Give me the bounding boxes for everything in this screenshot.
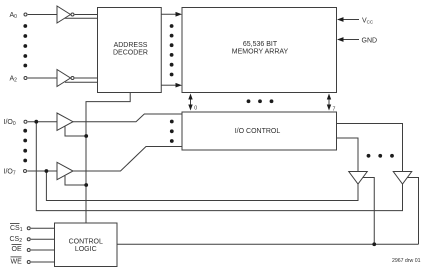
svg-text:ADDRESS: ADDRESS: [114, 42, 148, 49]
svg-text:65,536 BIT: 65,536 BIT: [243, 41, 278, 48]
ellipsis memory-io buses: [247, 99, 251, 103]
wire I/O control to left output buffer: [337, 138, 359, 172]
output buffer left: [349, 172, 368, 185]
output buffer right: [393, 172, 412, 185]
wire memory-io bus 7: [328, 98, 330, 107]
wire I/O7 input: [27, 170, 57, 172]
svg-text:LOGIC: LOGIC: [75, 246, 97, 253]
svg-text:I/O0: I/O0: [4, 119, 16, 127]
junction I/O0 pad: [34, 120, 38, 124]
wire CS2 input: [31, 238, 55, 240]
wire control logic to decoder: [86, 92, 130, 223]
wire A0 input: [28, 14, 57, 16]
svg-text:GND: GND: [362, 38, 378, 45]
terminal CS1: [27, 227, 30, 230]
svg-text:2967 drw 01: 2967 drw 01: [392, 258, 421, 264]
ellipsis I/O pads: [23, 129, 27, 133]
wire I/O0 buffer to I/O control: [73, 114, 182, 122]
wire I/O7 buffer enable: [65, 176, 86, 185]
svg-text:I/O CONTROL: I/O CONTROL: [235, 128, 281, 135]
wire I/O0 pad to output buffer: [36, 122, 402, 211]
memory array box U2: [182, 8, 337, 93]
arrowhead bus0 up: [188, 94, 192, 100]
junction enable I/O0: [84, 134, 88, 138]
wire right output buffer enable: [407, 178, 418, 245]
svg-text:DECODER: DECODER: [113, 50, 148, 57]
wire CS1 input: [31, 227, 55, 229]
svg-text:A2: A2: [10, 76, 18, 84]
buffer I/O7 input: [57, 162, 73, 179]
arrowhead bus7 up: [327, 94, 331, 100]
wire left output buffer enable: [363, 178, 375, 245]
wire control logic output enable: [117, 243, 419, 245]
ellipsis decoder-memory: [170, 24, 174, 28]
ellipsis output buffers: [367, 154, 371, 158]
wire I/O0 input: [28, 121, 57, 123]
buffer A0: [57, 6, 71, 23]
wire A2 buffer complement output: [65, 81, 98, 83]
terminal CS2: [27, 238, 30, 241]
overline CS1: [10, 223, 20, 225]
arrowhead bus0 down: [188, 105, 192, 111]
svg-text:I/O7: I/O7: [4, 169, 16, 177]
wire decoder to memory bottom: [161, 84, 176, 86]
svg-text:CS2: CS2: [10, 236, 23, 244]
ellipsis io-control inputs: [170, 120, 174, 124]
wire A0 buffer complement output: [65, 17, 98, 19]
wire I/O7 pad to output buffer: [46, 171, 358, 201]
terminal A0: [24, 13, 27, 16]
terminal A2: [24, 77, 27, 80]
wire I/O0 buffer enable: [65, 126, 86, 136]
terminal WE: [27, 261, 30, 264]
terminal OE: [27, 249, 30, 252]
wire GND: [342, 39, 359, 41]
svg-text:MEMORY ARRAY: MEMORY ARRAY: [232, 49, 289, 56]
wire A0 buffer true output: [75, 14, 98, 16]
svg-text:VCC: VCC: [362, 18, 374, 25]
junction enable I/O7: [84, 183, 88, 187]
arrowhead GND: [337, 37, 344, 42]
address decoder box U1: [98, 8, 162, 93]
arrowhead Vcc: [337, 17, 344, 22]
wire A2 buffer true output: [75, 77, 98, 79]
wire decoder to memory top: [161, 13, 176, 15]
wire I/O control to right output buffer: [337, 124, 403, 172]
I/O control box U3: [182, 112, 337, 150]
arrowhead decoder to memory bottom: [176, 83, 183, 88]
overline WE: [11, 256, 22, 258]
arrowhead decoder to memory top: [176, 12, 183, 17]
terminal I/O0: [24, 120, 27, 123]
overline OE: [12, 243, 22, 245]
buffer I/O0 input: [57, 113, 73, 130]
svg-text:WE: WE: [11, 258, 23, 265]
buffer A2: [57, 70, 71, 87]
arrowhead bus7 down: [327, 105, 331, 111]
control logic box U4: [55, 223, 118, 267]
wire WE input: [31, 261, 55, 263]
wire OE input: [31, 249, 55, 251]
svg-text:CS1: CS1: [10, 225, 23, 233]
svg-text:7: 7: [333, 107, 336, 113]
terminal I/O7: [24, 170, 27, 173]
junction I/O7 pad: [45, 169, 49, 173]
wire memory-io bus 0: [190, 98, 192, 107]
svg-text:A0: A0: [10, 12, 18, 20]
svg-text:OE: OE: [12, 246, 22, 253]
svg-text:0: 0: [194, 106, 197, 112]
wire A2 input: [28, 77, 57, 79]
wire Vcc: [342, 19, 359, 21]
junction output enable: [372, 242, 376, 246]
ellipsis address inputs: [23, 24, 27, 28]
wire I/O7 buffer to I/O control: [73, 147, 182, 172]
svg-text:CONTROL: CONTROL: [69, 239, 103, 246]
